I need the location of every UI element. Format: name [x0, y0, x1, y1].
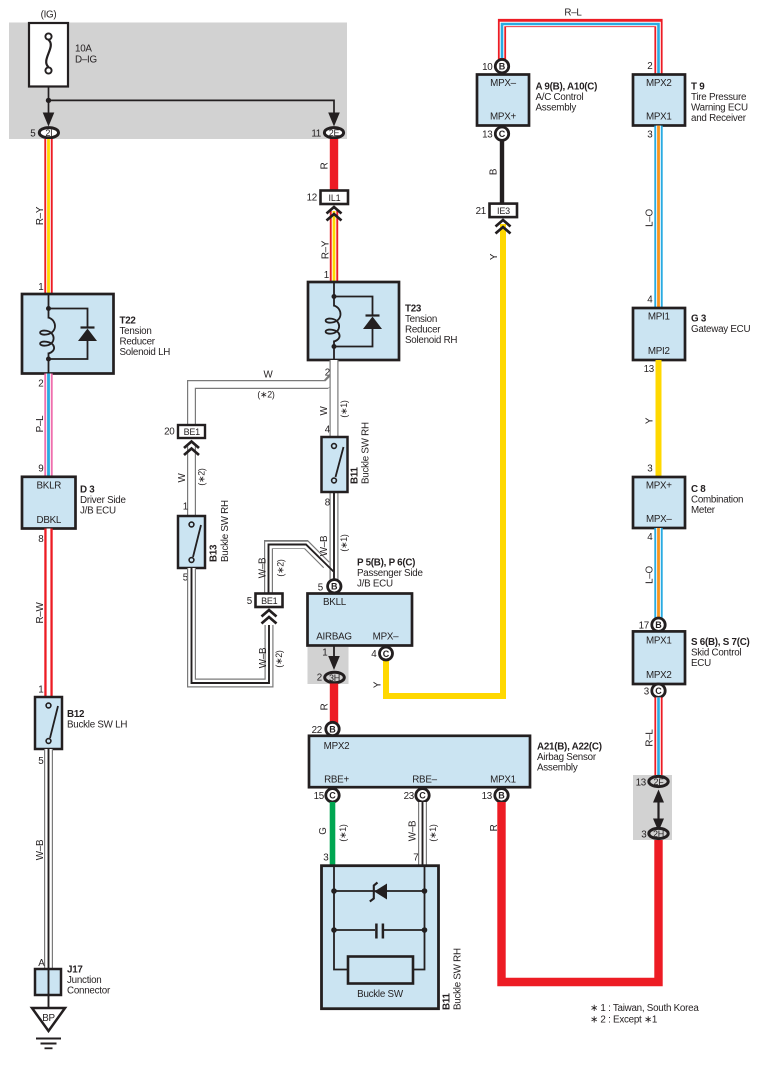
svg-text:D 3: D 3: [80, 485, 95, 496]
svg-text:(∗1): (∗1): [338, 824, 348, 842]
svg-text:Driver Side: Driver Side: [80, 495, 127, 506]
switch B13 box: [178, 516, 205, 568]
svg-text:B: B: [331, 582, 338, 592]
svg-text:MPX–: MPX–: [373, 631, 399, 642]
wire P-L: [44, 374, 52, 477]
gray band behind 3H connector: [308, 647, 349, 684]
svg-text:R: R: [320, 703, 331, 710]
svg-text:A: A: [38, 958, 45, 969]
svg-text:and Receiver: and Receiver: [691, 113, 747, 124]
svg-text:R–L: R–L: [645, 729, 656, 747]
T23 junction dots: [332, 294, 337, 299]
svg-text:B: B: [489, 168, 500, 175]
svg-text:Buckle SW RH: Buckle SW RH: [361, 422, 372, 484]
svg-text:W–B: W–B: [408, 820, 419, 841]
T22 diode branch: [49, 309, 88, 328]
chevron continuation below BE1(20): [184, 442, 199, 456]
svg-text:Assembly: Assembly: [536, 103, 577, 114]
svg-text:1: 1: [324, 270, 329, 281]
svg-text:3: 3: [641, 829, 647, 840]
svg-text:∗ 2 : Except ∗1: ∗ 2 : Except ∗1: [590, 1014, 657, 1025]
wire W (*1) T23 pin2 to B11 pin4: [330, 360, 339, 438]
svg-text:3: 3: [323, 853, 329, 864]
wire and arrow into 3H: [333, 646, 335, 659]
svg-text:2H: 2H: [653, 829, 664, 839]
svg-text:2: 2: [647, 61, 652, 72]
arrow into 2I: [43, 113, 55, 127]
svg-text:BKLL: BKLL: [323, 597, 347, 608]
svg-text:BE1: BE1: [261, 596, 278, 606]
svg-text:C: C: [329, 791, 336, 801]
svg-text:W–B: W–B: [258, 557, 269, 578]
svg-text:MPI2: MPI2: [648, 346, 670, 357]
ground point BP triangle: [32, 1008, 65, 1031]
wire L-O C8 to S6: [654, 528, 662, 619]
svg-text:T22: T22: [120, 316, 137, 327]
svg-text:MPX+: MPX+: [490, 111, 516, 122]
svg-text:C: C: [499, 129, 506, 139]
svg-text:R: R: [489, 824, 500, 831]
wire R to IL1: [330, 139, 338, 191]
skid control ECU S6 box: [633, 631, 685, 684]
svg-text:MPX2: MPX2: [324, 741, 350, 752]
svg-text:C 8: C 8: [691, 484, 706, 495]
wire W from BE1(20) up and to T23 pin2 (option *2): [192, 376, 335, 427]
chevron continuation below IL1: [327, 207, 342, 221]
svg-text:B: B: [329, 724, 336, 734]
svg-text:Solenoid LH: Solenoid LH: [120, 347, 171, 358]
svg-text:22: 22: [312, 725, 322, 736]
wire L-O T9 to G3: [654, 126, 662, 308]
svg-text:1: 1: [38, 282, 43, 293]
buckle switch assembly B11 box: [322, 866, 439, 1009]
wire R-Y to T23: [330, 211, 338, 283]
svg-text:Tension: Tension: [405, 314, 437, 325]
svg-text:A/C Control: A/C Control: [536, 92, 584, 103]
svg-text:B: B: [499, 62, 506, 72]
svg-text:10A: 10A: [75, 44, 92, 55]
svg-text:T23: T23: [405, 304, 422, 315]
svg-text:D–IG: D–IG: [75, 55, 97, 66]
svg-text:4: 4: [325, 425, 331, 436]
wire W-B from B13 pin5 loop to BE1(5) chevron: [192, 568, 270, 683]
gateway ECU G3 box: [633, 308, 685, 360]
svg-text:BKLR: BKLR: [37, 481, 62, 492]
arrow into 2E: [328, 113, 340, 127]
svg-text:MPX+: MPX+: [646, 481, 672, 492]
svg-text:B11: B11: [442, 993, 453, 1010]
svg-text:G: G: [318, 827, 329, 834]
svg-text:13: 13: [482, 791, 493, 802]
svg-text:(∗1): (∗1): [428, 824, 438, 842]
zener diode row: [334, 890, 425, 892]
svg-text:Junction: Junction: [67, 975, 102, 986]
svg-text:MPX1: MPX1: [646, 635, 672, 646]
wire R from MPX1 down and right to 2H: [502, 802, 659, 982]
svg-text:2E: 2E: [329, 128, 340, 138]
T23 internal wire: [333, 282, 335, 307]
capacitor row: [334, 929, 375, 931]
svg-text:4: 4: [647, 295, 653, 306]
T22 internal wire: [48, 294, 50, 319]
svg-text:RBE–: RBE–: [412, 775, 437, 786]
svg-text:Connector: Connector: [67, 986, 111, 997]
svg-text:1: 1: [322, 648, 327, 659]
svg-text:11: 11: [311, 128, 321, 139]
capacitor plates: [375, 924, 378, 939]
svg-text:3H: 3H: [329, 673, 340, 683]
airbag sensor assembly A21 box: [309, 736, 530, 787]
wire W-B (*1) B11 pin8 to P5 pin5: [330, 492, 339, 580]
svg-text:R–Y: R–Y: [35, 206, 46, 225]
T23 coil: [326, 306, 341, 342]
T22 junction dots: [46, 306, 51, 311]
svg-text:S 6(B), S 7(C): S 6(B), S 7(C): [691, 637, 750, 648]
svg-text:J/B ECU: J/B ECU: [80, 506, 116, 517]
power rail gray band: [9, 23, 347, 140]
svg-text:2: 2: [38, 379, 43, 390]
svg-text:P–L: P–L: [35, 415, 46, 432]
wire R-Y left column: [44, 139, 52, 295]
wire fuse to junction: [48, 87, 50, 115]
svg-text:Y: Y: [373, 681, 384, 688]
svg-text:W: W: [319, 406, 330, 416]
wire B black: [500, 140, 504, 204]
svg-text:R–Y: R–Y: [321, 240, 332, 259]
svg-text:A 9(B), A10(C): A 9(B), A10(C): [536, 82, 598, 93]
svg-text:23: 23: [404, 791, 415, 802]
svg-text:IL1: IL1: [329, 193, 341, 203]
svg-text:Buckle SW RH: Buckle SW RH: [220, 500, 231, 562]
svg-text:15: 15: [314, 791, 325, 802]
svg-text:W–B: W–B: [258, 647, 269, 668]
svg-text:Y: Y: [489, 253, 500, 260]
wire Y G3 to C8: [656, 360, 662, 477]
svg-text:W: W: [177, 473, 188, 483]
svg-text:3: 3: [644, 687, 650, 698]
svg-text:Skid Control: Skid Control: [691, 648, 741, 659]
svg-text:(IG): (IG): [41, 10, 57, 21]
svg-text:W: W: [264, 370, 274, 381]
gray band behind 2F/2H connectors: [633, 775, 672, 840]
svg-text:3: 3: [647, 130, 653, 141]
svg-text:Gateway ECU: Gateway ECU: [691, 324, 750, 335]
wire R 3H to A21: [330, 684, 338, 731]
svg-text:5: 5: [38, 756, 44, 767]
svg-text:(∗2): (∗2): [257, 390, 275, 400]
T23 diode branch: [334, 297, 373, 316]
B11 internal left rail: [334, 866, 348, 970]
svg-text:B11: B11: [350, 467, 361, 484]
svg-text:R–L: R–L: [564, 8, 582, 19]
svg-text:(∗2): (∗2): [276, 559, 286, 577]
svg-text:AIRBAG: AIRBAG: [316, 631, 352, 642]
svg-text:MPX2: MPX2: [646, 670, 672, 681]
svg-text:RBE+: RBE+: [324, 775, 349, 786]
svg-text:B13: B13: [209, 544, 220, 562]
B13 switch contacts: [193, 525, 201, 557]
svg-text:4: 4: [647, 532, 653, 543]
svg-text:4: 4: [371, 649, 377, 660]
svg-text:MPI1: MPI1: [648, 312, 670, 323]
svg-text:Warning ECU: Warning ECU: [691, 103, 748, 114]
svg-text:W–B: W–B: [319, 535, 330, 556]
svg-text:MPX2: MPX2: [646, 78, 672, 89]
svg-text:Buckle SW RH: Buckle SW RH: [453, 948, 464, 1010]
svg-text:Y: Y: [645, 417, 656, 424]
svg-text:∗ 1 : Taiwan, South Korea: ∗ 1 : Taiwan, South Korea: [590, 1003, 699, 1014]
svg-text:13: 13: [482, 130, 493, 141]
svg-text:MPX–: MPX–: [490, 78, 516, 89]
switch B11 box: [322, 437, 348, 492]
svg-text:IE3: IE3: [497, 206, 510, 216]
svg-text:Combination: Combination: [691, 495, 743, 506]
svg-text:(∗2): (∗2): [197, 468, 207, 486]
svg-text:MPX–: MPX–: [646, 514, 672, 525]
svg-text:G 3: G 3: [691, 313, 707, 324]
svg-text:8: 8: [38, 534, 44, 545]
combination meter C8 box: [633, 477, 685, 528]
svg-text:7: 7: [413, 853, 418, 864]
svg-text:C: C: [383, 649, 390, 659]
switch B12 box: [35, 697, 62, 749]
svg-text:Assembly: Assembly: [537, 763, 578, 774]
B11 switch contacts: [336, 447, 344, 477]
svg-text:9: 9: [38, 464, 43, 475]
svg-text:2I: 2I: [45, 128, 52, 138]
svg-text:2: 2: [317, 673, 322, 684]
ECU P5/P6 box: [308, 594, 413, 646]
solenoid T23 box: [308, 282, 399, 360]
svg-text:5: 5: [247, 596, 253, 607]
wire W chevron to B13 pin1: [187, 446, 196, 516]
svg-text:L–O: L–O: [645, 208, 656, 226]
svg-text:8: 8: [325, 498, 331, 509]
svg-text:B12: B12: [67, 709, 85, 720]
svg-text:(∗1): (∗1): [339, 400, 349, 418]
wire W-B option merge black stripe: [269, 545, 334, 594]
svg-text:J/B ECU: J/B ECU: [357, 579, 393, 590]
svg-text:Tension: Tension: [120, 326, 152, 337]
svg-text:J17: J17: [67, 965, 83, 976]
ground symbol: [36, 1039, 61, 1049]
svg-text:Reducer: Reducer: [405, 325, 441, 336]
svg-text:Reducer: Reducer: [120, 337, 156, 348]
svg-text:R: R: [320, 162, 331, 169]
svg-text:10: 10: [482, 62, 493, 73]
svg-text:W–B: W–B: [35, 839, 46, 860]
svg-text:MPX1: MPX1: [490, 775, 516, 786]
T22 coil: [40, 318, 55, 354]
svg-text:2F: 2F: [653, 777, 664, 787]
double arrow between 2F and 2H: [657, 797, 659, 824]
wire Y from IE3 down-left to P5 MPX- pin4: [386, 224, 503, 696]
wire W-B left column: [44, 749, 53, 969]
chevron continuation below BE1(5): [262, 610, 277, 624]
svg-text:MPX1: MPX1: [646, 111, 672, 122]
svg-text:(∗1): (∗1): [339, 534, 349, 552]
wire G from RBE+ to B11: [330, 802, 336, 866]
wire W-B from RBE- to B11: [418, 802, 427, 866]
svg-text:C: C: [419, 791, 426, 801]
svg-text:Buckle SW LH: Buckle SW LH: [67, 719, 127, 730]
buckle switch element box: [348, 957, 413, 984]
svg-text:Airbag Sensor: Airbag Sensor: [537, 752, 597, 763]
svg-text:BE1: BE1: [184, 427, 201, 437]
solenoid T22 box: [22, 294, 114, 374]
svg-text:21: 21: [476, 206, 486, 217]
ECU D3 box: [22, 477, 76, 529]
svg-text:B: B: [655, 620, 662, 630]
B11 internal right rail: [413, 866, 425, 970]
svg-text:5: 5: [318, 582, 324, 593]
svg-text:R–W: R–W: [35, 601, 46, 623]
wire R-W: [44, 529, 52, 698]
svg-text:C: C: [655, 686, 662, 696]
svg-text:12: 12: [307, 193, 317, 204]
svg-text:L–O: L–O: [645, 565, 656, 583]
wire R-L top loop A/C to T9: [502, 23, 659, 75]
svg-text:A21(B), A22(C): A21(B), A22(C): [537, 742, 602, 753]
fuse 10A D-IG box: [29, 23, 68, 87]
svg-text:20: 20: [164, 427, 175, 438]
wire through J17 to ground: [48, 969, 50, 1008]
svg-text:Meter: Meter: [691, 505, 716, 516]
svg-text:Tire Pressure: Tire Pressure: [691, 92, 747, 103]
svg-text:BP: BP: [42, 1013, 55, 1024]
svg-text:B: B: [498, 791, 505, 801]
zener diode: [374, 884, 387, 900]
svg-text:5: 5: [30, 128, 36, 139]
svg-text:P 5(B), P 6(C): P 5(B), P 6(C): [357, 558, 415, 569]
svg-text:1: 1: [38, 685, 43, 696]
wire junction to 2E branch: [49, 100, 335, 114]
tire pressure ECU T9 box: [633, 75, 685, 126]
A/C control assembly A9 box: [477, 75, 529, 126]
svg-text:3: 3: [647, 464, 653, 475]
svg-text:1: 1: [183, 502, 188, 513]
wire R-L S6 to 2F: [654, 697, 662, 775]
junction node: [46, 98, 51, 103]
svg-text:13: 13: [636, 777, 647, 788]
svg-text:13: 13: [644, 364, 655, 375]
svg-text:DBKL: DBKL: [37, 515, 62, 526]
svg-text:Passenger Side: Passenger Side: [357, 568, 423, 579]
svg-text:Buckle SW: Buckle SW: [357, 989, 404, 1000]
chevron continuation below IE3: [496, 220, 511, 234]
svg-text:Solenoid RH: Solenoid RH: [405, 335, 457, 346]
B12 switch contacts: [50, 706, 58, 738]
svg-text:ECU: ECU: [691, 658, 711, 669]
fuse element: [45, 33, 51, 73]
junction connector J17 box: [35, 969, 61, 995]
svg-text:T 9: T 9: [691, 82, 705, 93]
wire W-B from BE1(5) top joining P5 wire (option *2): [269, 545, 327, 594]
svg-text:(∗2): (∗2): [274, 650, 284, 668]
svg-text:17: 17: [639, 621, 649, 632]
